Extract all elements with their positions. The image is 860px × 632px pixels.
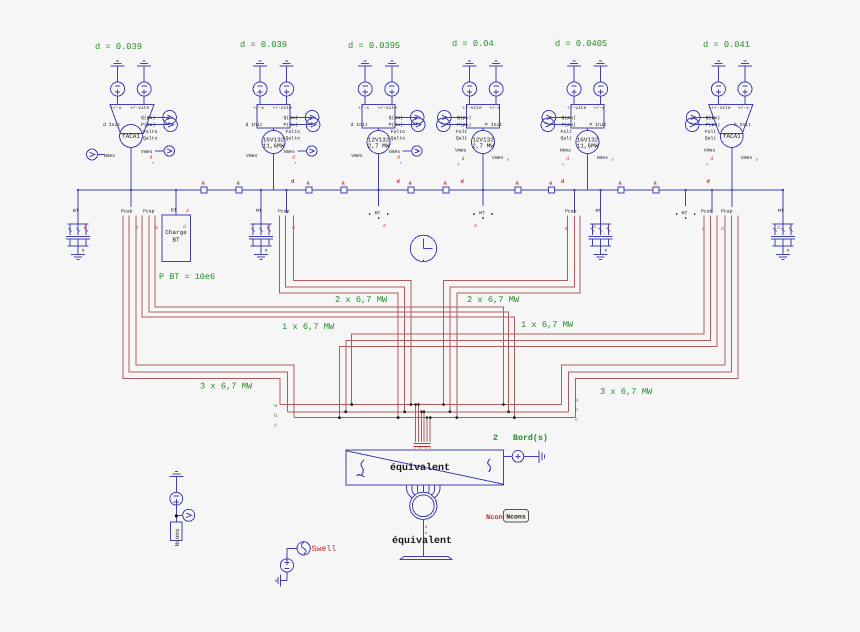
svg-text:MT: MT bbox=[256, 208, 262, 214]
svg-text:MT: MT bbox=[596, 208, 602, 214]
svg-text:Qalt: Qalt bbox=[456, 135, 468, 141]
svg-text:*: * bbox=[294, 162, 297, 168]
svg-text:d: d bbox=[150, 155, 153, 161]
svg-text:d: d bbox=[789, 225, 792, 231]
svg-text:d: d bbox=[183, 224, 186, 230]
svg-text:a: a bbox=[575, 398, 578, 404]
svg-text:3 x 6,7 MW: 3 x 6,7 MW bbox=[600, 387, 653, 397]
svg-text:Pcab: Pcab bbox=[701, 209, 713, 215]
svg-text:Q(pu): Q(pu) bbox=[141, 115, 156, 121]
svg-text:d = 0.041: d = 0.041 bbox=[703, 40, 750, 50]
svg-text:+/-vite: +/-vite bbox=[378, 105, 398, 111]
svg-text:*: * bbox=[706, 163, 709, 169]
svg-text:d = 0.039: d = 0.039 bbox=[95, 42, 142, 52]
svg-text:Bord(s): Bord(s) bbox=[513, 433, 548, 443]
svg-text:d: d bbox=[710, 156, 713, 162]
svg-text:d = 0.0405: d = 0.0405 bbox=[555, 39, 607, 49]
svg-text:d: d bbox=[593, 224, 596, 230]
svg-text:o: o bbox=[507, 159, 509, 163]
svg-text:d: d bbox=[186, 208, 189, 214]
svg-text:Falto: Falto bbox=[391, 129, 406, 135]
svg-text:Pcap: Pcap bbox=[143, 209, 155, 215]
svg-text:d: d bbox=[267, 224, 270, 230]
svg-text:MT: MT bbox=[682, 211, 688, 217]
svg-text:équivalent: équivalent bbox=[392, 535, 452, 547]
svg-text:*: * bbox=[457, 163, 460, 169]
svg-text:Pcap: Pcap bbox=[278, 209, 290, 215]
svg-text:d: d bbox=[607, 225, 610, 231]
svg-text:Pcap: Pcap bbox=[565, 209, 577, 215]
svg-text:+/-vite: +/-vite bbox=[130, 105, 150, 111]
svg-text:Q(pu): Q(pu) bbox=[706, 115, 721, 121]
svg-text:P(pu): P(pu) bbox=[284, 122, 299, 128]
svg-text:Qalto: Qalto bbox=[143, 135, 158, 141]
svg-text:*: * bbox=[562, 163, 565, 169]
svg-text:*: * bbox=[399, 162, 402, 168]
svg-text:TACA1: TACA1 bbox=[122, 133, 140, 140]
svg-text:d = 0.0395: d = 0.0395 bbox=[348, 41, 400, 51]
svg-text:Falt: Falt bbox=[456, 129, 468, 135]
svg-text:b: b bbox=[575, 407, 578, 413]
svg-text:BT: BT bbox=[172, 237, 180, 244]
svg-text:d Init: d Init bbox=[103, 122, 120, 128]
svg-text:Pcab: Pcab bbox=[121, 209, 133, 215]
svg-text:o: o bbox=[756, 159, 758, 163]
svg-text:d: d bbox=[461, 178, 464, 185]
svg-text:BT: BT bbox=[171, 208, 177, 214]
svg-text:Q(pu): Q(pu) bbox=[457, 115, 472, 121]
svg-text:d: d bbox=[777, 225, 780, 231]
svg-text:P Init: P Init bbox=[734, 122, 751, 128]
svg-text:1 x 6,7 MW: 1 x 6,7 MW bbox=[282, 322, 335, 332]
svg-text:Charge: Charge bbox=[165, 229, 187, 236]
svg-text:P(pu): P(pu) bbox=[457, 122, 472, 128]
svg-text:Vmes: Vmes bbox=[492, 155, 504, 161]
svg-text:d: d bbox=[84, 224, 87, 230]
svg-text:P Init: P Init bbox=[590, 122, 607, 128]
svg-text:a: a bbox=[274, 403, 277, 409]
svg-text:Qalto: Qalto bbox=[286, 135, 301, 141]
svg-text:Qalto: Qalto bbox=[391, 135, 406, 141]
svg-text:1 x 6,7 MW: 1 x 6,7 MW bbox=[521, 320, 574, 330]
svg-text:P BT = 10e6: P BT = 10e6 bbox=[159, 272, 215, 282]
svg-text:*: * bbox=[152, 162, 155, 168]
svg-text:+/-vite: +/-vite bbox=[463, 105, 483, 111]
svg-text:P(pu): P(pu) bbox=[141, 122, 156, 128]
svg-text:Pcap: Pcap bbox=[721, 209, 733, 215]
svg-text:Qalt: Qalt bbox=[561, 135, 573, 141]
svg-text:+/-x: +/-x bbox=[111, 105, 122, 111]
svg-text:d: d bbox=[561, 178, 564, 185]
svg-text:d: d bbox=[566, 156, 569, 162]
svg-text:+/-x: +/-x bbox=[489, 105, 500, 111]
svg-text:Vmes: Vmes bbox=[104, 153, 116, 159]
svg-text:BT: BT bbox=[73, 208, 79, 214]
svg-text:+/-vite: +/-vite bbox=[567, 105, 587, 111]
svg-text:Vmes: Vmes bbox=[597, 155, 609, 161]
svg-text:P Init: P Init bbox=[485, 122, 502, 128]
svg-text:+/-x: +/-x bbox=[594, 105, 605, 111]
svg-text:2,7 MW: 2,7 MW bbox=[368, 143, 390, 150]
svg-text:Ncons: Ncons bbox=[506, 514, 526, 521]
svg-text:d: d bbox=[292, 155, 295, 161]
svg-text:Q(pu): Q(pu) bbox=[389, 115, 404, 121]
svg-text:Falt: Falt bbox=[561, 129, 573, 135]
svg-text:Vmes: Vmes bbox=[560, 148, 572, 154]
svg-text:d: d bbox=[397, 178, 400, 185]
svg-text:2,7 MW: 2,7 MW bbox=[472, 143, 494, 150]
svg-text:d Init: d Init bbox=[246, 122, 263, 128]
svg-text:3 x 6,7 MW: 3 x 6,7 MW bbox=[200, 382, 253, 392]
svg-text:c: c bbox=[274, 423, 277, 429]
svg-text:Falto: Falto bbox=[143, 129, 158, 135]
svg-text:Swell: Swell bbox=[311, 544, 336, 554]
svg-text:d: d bbox=[474, 223, 477, 229]
svg-text:2: 2 bbox=[493, 434, 498, 443]
svg-text:Q(pu): Q(pu) bbox=[284, 115, 299, 121]
svg-text:+/-vite: +/-vite bbox=[711, 105, 731, 111]
svg-text:Vmes: Vmes bbox=[246, 153, 258, 159]
svg-text:+/-vite: +/-vite bbox=[273, 105, 293, 111]
svg-text:Vmes: Vmes bbox=[351, 153, 363, 159]
svg-text:2 x 6,7 MW: 2 x 6,7 MW bbox=[335, 295, 388, 305]
svg-text:o: o bbox=[612, 159, 614, 163]
svg-text:Q(pu): Q(pu) bbox=[562, 115, 577, 121]
svg-text:d = 0.04: d = 0.04 bbox=[452, 39, 494, 49]
svg-text:Falt: Falt bbox=[705, 129, 717, 135]
svg-text:d = 0.039: d = 0.039 bbox=[240, 40, 287, 50]
svg-text:d: d bbox=[462, 156, 465, 162]
svg-text:c: c bbox=[575, 417, 578, 423]
svg-text:P(pu): P(pu) bbox=[562, 122, 577, 128]
svg-text:Vmes: Vmes bbox=[741, 155, 753, 161]
svg-text:MT: MT bbox=[375, 211, 381, 217]
svg-text:Falto: Falto bbox=[286, 129, 301, 135]
svg-text:Vmes: Vmes bbox=[704, 148, 716, 154]
svg-text:équivalent: équivalent bbox=[390, 462, 450, 474]
svg-text:d: d bbox=[721, 226, 724, 232]
svg-text:2 x 6,7 MW: 2 x 6,7 MW bbox=[467, 295, 520, 305]
svg-text:P(pu): P(pu) bbox=[389, 122, 404, 128]
svg-text:d: d bbox=[383, 223, 386, 229]
svg-text:+/-x: +/-x bbox=[253, 105, 264, 111]
svg-text:b: b bbox=[274, 413, 277, 419]
svg-text:MT: MT bbox=[778, 208, 784, 214]
svg-text:+/-x: +/-x bbox=[358, 105, 369, 111]
svg-text:11,6MW: 11,6MW bbox=[577, 143, 599, 150]
svg-text:MT: MT bbox=[479, 211, 485, 217]
svg-text:+/-x: +/-x bbox=[738, 105, 749, 111]
svg-text:d: d bbox=[291, 178, 294, 185]
svg-text:d: d bbox=[397, 155, 400, 161]
svg-text:11,6MW: 11,6MW bbox=[263, 143, 285, 150]
svg-text:Vmes: Vmes bbox=[455, 148, 467, 154]
svg-text:P(pu): P(pu) bbox=[706, 122, 721, 128]
svg-text:Ncons: Ncons bbox=[174, 528, 181, 546]
svg-text:Qalt: Qalt bbox=[705, 135, 717, 141]
svg-text:d Init: d Init bbox=[351, 122, 368, 128]
svg-text:TACA1: TACA1 bbox=[723, 133, 741, 140]
svg-text:d: d bbox=[707, 178, 710, 185]
